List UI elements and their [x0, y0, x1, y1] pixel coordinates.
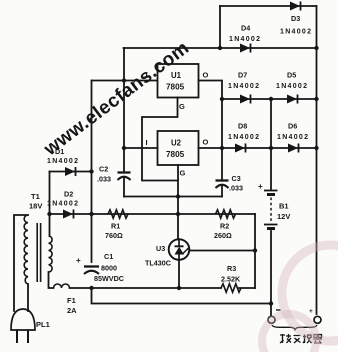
diode D6 [288, 144, 299, 153]
terminal plus [314, 316, 321, 323]
wire battery column bottom [270, 231, 272, 304]
wire fuse row [49, 272, 92, 288]
wire C2 lower lead [123, 177, 125, 197]
transformer T1 secondary winding [49, 236, 53, 272]
svg-text:R2: R2 [220, 222, 229, 231]
brace under terminals [272, 325, 317, 330]
svg-text:O: O [203, 71, 209, 80]
label minus [276, 309, 281, 311]
diode D3 [290, 2, 301, 11]
diode D1 [65, 167, 76, 176]
wire secondary top column [49, 172, 51, 237]
svg-text:7805: 7805 [166, 150, 185, 159]
svg-text:7805: 7805 [166, 83, 185, 92]
svg-text:C1: C1 [104, 252, 113, 261]
op-amp U2 regulator box [158, 131, 199, 165]
transformer T1 primary winding [24, 215, 28, 284]
svg-text:G: G [180, 169, 186, 178]
resistor R2 [216, 210, 236, 218]
svg-text:R3: R3 [227, 264, 236, 273]
wire U3 bottom lead [178, 260, 180, 288]
node D5 right [314, 97, 318, 101]
battery B1 [264, 191, 278, 229]
transistor U3 TL430C [169, 239, 190, 260]
svg-text:T1: T1 [31, 192, 40, 201]
svg-text:2A: 2A [67, 306, 77, 315]
svg-text:G: G [179, 102, 185, 111]
svg-text:8000: 8000 [101, 264, 117, 273]
diode D7 [240, 95, 251, 104]
wire rail A right of R3 [239, 287, 255, 289]
svg-text:D5: D5 [287, 71, 296, 80]
wire D1 row [50, 171, 92, 173]
wire U2 input row [124, 147, 158, 149]
node battery plus [269, 146, 273, 150]
svg-text:1N4002: 1N4002 [47, 201, 79, 208]
wire primary bottom lead [27, 284, 29, 311]
svg-text:D2: D2 [64, 190, 73, 199]
wire left input column [123, 48, 125, 172]
wire U3 right lead [189, 250, 255, 252]
svg-text:1N4002: 1N4002 [229, 36, 261, 43]
svg-text:1N4002: 1N4002 [228, 83, 260, 90]
wire C3 lower lead [221, 185, 223, 197]
capacitor C2 [118, 173, 131, 181]
wire rail A left [92, 287, 222, 289]
wire mid column to U3 [177, 197, 179, 240]
wire U1 ground route [142, 98, 178, 181]
node battery top tap [269, 97, 273, 101]
wire U2 ground stub [177, 165, 179, 197]
svg-text:.033: .033 [97, 175, 111, 184]
svg-text:1N4002: 1N4002 [276, 83, 308, 90]
svg-text:U2: U2 [171, 139, 182, 148]
svg-text:PL1: PL1 [36, 320, 50, 329]
svg-text:F1: F1 [67, 296, 76, 305]
wire D7 D5 row [222, 98, 317, 100]
wire primary top lead [14, 215, 28, 311]
svg-text:U1: U1 [171, 71, 182, 80]
wire right column [316, 6, 318, 314]
node D4 left [218, 46, 222, 50]
svg-text:.033: .033 [229, 184, 243, 193]
fuse F1 [54, 284, 70, 288]
svg-text:D8: D8 [238, 122, 247, 131]
wire U1 output jog [199, 81, 223, 180]
wire minus terminal lead [270, 304, 272, 317]
svg-text:2.52K: 2.52K [221, 275, 241, 284]
svg-text:1N4002: 1N4002 [228, 134, 260, 141]
node D1 junction [89, 169, 93, 173]
diode D4 [240, 44, 251, 53]
svg-text:I: I [146, 138, 148, 147]
node D4 right [314, 46, 318, 50]
node ground bus [176, 194, 180, 198]
watermark logo arcs [262, 245, 338, 352]
svg-text:D3: D3 [291, 14, 300, 23]
capacitor C3 [216, 181, 229, 189]
svg-text:260Ω: 260Ω [214, 231, 232, 240]
wire R2 right column [254, 214, 256, 288]
node R1 R2 junction [176, 212, 180, 216]
node D8 left [220, 146, 224, 150]
node D7 left [220, 97, 224, 101]
node U3 reference [253, 248, 257, 252]
wire rail B [92, 288, 272, 304]
terminal minus [268, 316, 275, 323]
wire U2 output / D8 D6 row [199, 147, 317, 149]
svg-text:D6: D6 [288, 122, 297, 131]
wire raw DC column [91, 81, 93, 263]
op-amp U1 regulator box [158, 64, 199, 98]
svg-text:O: O [203, 138, 209, 147]
label chinese 接交换器 [280, 334, 322, 343]
plug PL1 [11, 309, 35, 330]
wire U1 input row [92, 80, 158, 82]
node U2 input tap [122, 146, 126, 150]
resistor R3 [221, 284, 241, 292]
diode D2 [63, 210, 74, 219]
svg-text:760Ω: 760Ω [105, 231, 123, 240]
svg-text:TL430C: TL430C [145, 259, 171, 268]
wire battery column top [270, 99, 272, 190]
svg-text:85WVDC: 85WVDC [94, 274, 124, 283]
svg-text:1N4002: 1N4002 [277, 134, 309, 141]
node D6 right [314, 146, 318, 150]
svg-text:R1: R1 [111, 222, 120, 231]
diode D8 [235, 144, 246, 153]
svg-text:B1: B1 [279, 202, 289, 211]
capacitor C1 [84, 267, 99, 275]
node U1 input tap [122, 78, 126, 82]
node dots [47, 46, 318, 306]
svg-text:C2: C2 [99, 165, 108, 174]
svg-text:18V: 18V [29, 202, 42, 211]
svg-text:+: + [76, 256, 81, 265]
svg-text:+: + [258, 182, 263, 191]
diode D5 [287, 95, 298, 104]
node D2 junction [89, 212, 93, 216]
svg-text:C3: C3 [232, 174, 241, 183]
wire D4 row [124, 47, 317, 49]
node battery minus [269, 301, 273, 305]
resistor R1 [108, 210, 128, 218]
wire D2 R1 R2 row [50, 213, 256, 215]
wire ground bus [124, 196, 222, 198]
node secondary top [47, 212, 51, 216]
wire top rail [220, 5, 317, 7]
svg-text:12V: 12V [277, 212, 290, 221]
node U3 bottom [177, 286, 181, 290]
svg-text:1N4002: 1N4002 [280, 29, 312, 36]
node C1 junction [89, 286, 93, 290]
wire top-left drop to D4 row [219, 6, 221, 48]
svg-text:D4: D4 [241, 24, 250, 33]
svg-text:U3: U3 [156, 244, 165, 253]
svg-text:+: + [309, 308, 313, 315]
transformer T1 core [37, 223, 40, 282]
svg-text:D7: D7 [238, 71, 247, 80]
